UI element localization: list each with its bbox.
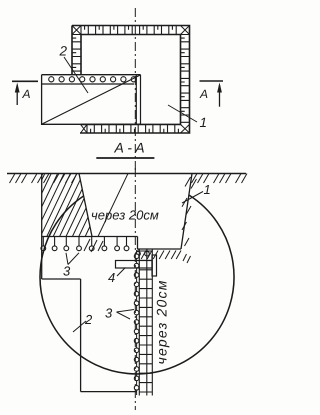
shaft wall left vertical lower (80, 279, 82, 392)
leader 1 (182, 192, 203, 204)
svg-text:2: 2 (84, 312, 93, 327)
dowel string line (136, 250, 138, 395)
ground hatching right of pit (192, 174, 248, 184)
guide bracket right (152, 255, 157, 276)
crib bottom band ticks (87, 124, 178, 133)
svg-text:2: 2 (59, 44, 68, 59)
section centerline (dash-dot) (134, 168, 136, 410)
crib ring outline (element 1, plan) (72, 26, 190, 134)
section marker A right: bar (200, 80, 224, 82)
shield panel diagonal (42, 75, 141, 124)
svg-text:A: A (199, 87, 208, 101)
svg-text:3: 3 (105, 306, 113, 321)
svg-text:3: 3 (63, 264, 71, 279)
leader 4 (117, 268, 125, 277)
hatching along right wall (soil side) (182, 177, 197, 246)
hatch under left berm (84, 239, 103, 252)
leader 3 lower (fork) (117, 310, 135, 320)
shield panel right edge double line (136, 75, 140, 125)
pit bottom step connector (137, 237, 139, 250)
crib top-left corner X (72, 26, 81, 35)
svg-text:через 20см: через 20см (91, 208, 159, 223)
svg-text:A: A (22, 87, 31, 101)
pit right slant wall (181, 174, 192, 250)
crib bottom-right corner X (181, 124, 190, 133)
hatch under right pit bottom (141, 251, 181, 260)
soil wedge hatch lines (42, 174, 128, 237)
leader 3 upper (fork) (66, 253, 79, 265)
svg-text:A - A: A - A (114, 140, 145, 156)
joint strip rungs (139, 251, 152, 392)
leader for label 1 (168, 105, 197, 122)
svg-text:4: 4 (108, 270, 115, 285)
ground line (7, 173, 246, 175)
leader 2 (73, 321, 86, 332)
step ledge horizontal (42, 278, 81, 280)
section marker A left: bar (12, 80, 38, 82)
svg-text:через 20см: через 20см (154, 279, 170, 364)
pit bottom left line (42, 236, 138, 238)
section marker A left: arrow (16, 85, 18, 105)
joint strip band verticals (139, 250, 152, 396)
shield panel bolt circles (49, 77, 54, 82)
svg-text:1: 1 (204, 182, 211, 197)
hanger hooks row (element 3 upper): ticks (43, 237, 126, 246)
pit left slant wall (79, 174, 92, 237)
crib top-right corner X (181, 26, 190, 35)
section marker A right: arrow (219, 85, 221, 107)
dowel circles column (element 3) (134, 254, 139, 259)
stray hatch right of wall base (183, 254, 191, 263)
crib right band ticks (181, 35, 190, 123)
shaft bottom line (81, 391, 137, 393)
leader for label 2 (64, 57, 88, 93)
pit bottom right line (138, 248, 182, 250)
crib bottom band left end slash (81, 124, 87, 133)
title underline (96, 157, 154, 159)
ground hatching left of pit (10, 174, 78, 184)
crib top band ticks (81, 26, 176, 35)
shaft outline left vertical (element 2 section) (41, 174, 43, 280)
shield panel 2 (plan rectangle) (42, 75, 141, 125)
hanger hooks row rings (41, 246, 46, 251)
plan centerline (dash-dot) (134, 8, 136, 170)
svg-text:1: 1 (200, 115, 208, 130)
small hooks right of joint (138, 249, 147, 251)
guide bar element 4 (116, 261, 153, 269)
crib left band ticks (visible above shield) (72, 35, 81, 72)
well shaft circle (sinking well) (40, 195, 234, 374)
